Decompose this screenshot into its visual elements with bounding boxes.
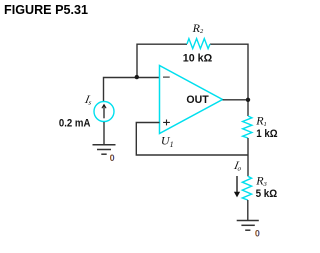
Io arrow — [236, 176, 238, 192]
current source arrow — [103, 105, 105, 118]
svg-text:5 kΩ: 5 kΩ — [256, 188, 278, 200]
wire: R3 bottom to ground — [247, 200, 249, 220]
resistor R1 zigzag — [243, 116, 252, 138]
wire: inverting input wire from left rail to op-amp minus input — [104, 78, 160, 102]
resistor R2 zigzag — [187, 39, 210, 49]
op-amp U1 triangle — [160, 66, 223, 134]
ground (right, node 0) — [237, 220, 259, 222]
op-amp minus sign — [163, 76, 170, 78]
output node junction dot — [246, 98, 250, 102]
wire: top wire right segment from R2 to right rail, down to output node — [210, 44, 248, 116]
svg-text:0: 0 — [110, 153, 115, 163]
ground (left, node 0) — [93, 144, 116, 146]
svg-text:0.2 mA: 0.2 mA — [59, 118, 91, 130]
resistor R3 zigzag — [242, 176, 251, 200]
wire: current source to ground — [103, 122, 105, 145]
wire: op-amp output to right rail — [223, 99, 249, 101]
svg-text:1 kΩ: 1 kΩ — [256, 128, 278, 140]
wire: non-inverting input loop (plus input, down, bottom wire to right rail) — [136, 123, 248, 156]
wire: R1 bottom to bottom wire junction and down to R3 — [247, 138, 249, 176]
svg-text:FIGURE P5.31: FIGURE P5.31 — [4, 3, 88, 17]
svg-text:10 kΩ: 10 kΩ — [183, 53, 213, 65]
svg-text:0: 0 — [255, 229, 260, 239]
current source Is circle — [94, 102, 114, 122]
wire: feedback branch up from node A, top wire left segment to R2 — [137, 44, 187, 77]
node A junction dot — [135, 75, 139, 79]
op-amp plus sign — [163, 120, 170, 126]
svg-text:OUT: OUT — [186, 94, 209, 106]
